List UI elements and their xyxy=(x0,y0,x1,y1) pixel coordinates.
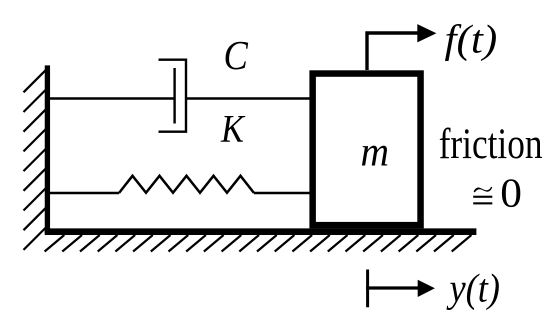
wire: spring K left rod xyxy=(50,192,119,194)
ground hatching xyxy=(45,235,472,252)
displacement arrow y(t): tick xyxy=(366,270,369,308)
wall xyxy=(45,65,50,233)
svg-text:m: m xyxy=(361,127,390,175)
wire: damper C right rod xyxy=(186,97,312,99)
damper C piston xyxy=(173,68,175,124)
svg-text:y(t): y(t) xyxy=(446,267,500,311)
force arrow f(t): lead lines xyxy=(367,33,418,70)
wire: spring K right rod xyxy=(254,192,312,194)
svg-text:f(t): f(t) xyxy=(445,18,498,62)
damper C cylinder xyxy=(159,60,187,132)
displacement arrow y(t): shaft xyxy=(366,286,418,289)
svg-text:C: C xyxy=(224,33,249,79)
svg-text:0: 0 xyxy=(500,171,522,217)
svg-text:friction: friction xyxy=(439,120,543,168)
wire: damper C left rod xyxy=(50,97,175,99)
label approx-equal symbol xyxy=(473,187,492,205)
wall hatching xyxy=(24,70,47,250)
arrowhead y(t) xyxy=(418,280,435,297)
arrowhead f(t) xyxy=(417,24,436,42)
spring K coil xyxy=(119,176,254,193)
svg-text:K: K xyxy=(220,107,246,151)
ground xyxy=(45,228,477,235)
mass m block xyxy=(313,74,421,226)
